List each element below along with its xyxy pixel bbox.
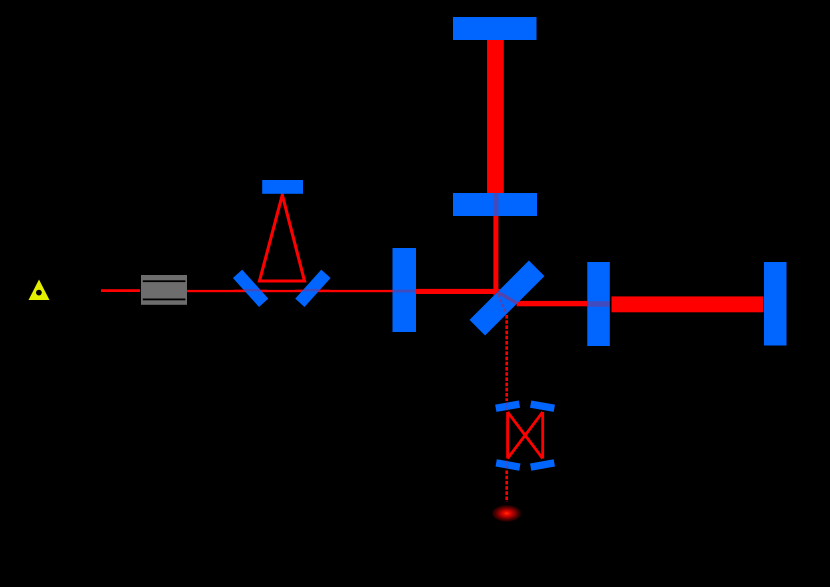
ETM X mirror (764, 262, 787, 346)
beam trace through ITM X (587, 301, 610, 307)
beam trace through mode cleaner mirror M2 (295, 289, 330, 291)
ITM X mirror (587, 262, 610, 346)
wire beam beamsplitter up to ITM Y (clipped at BS face) (493, 216, 498, 296)
ETM Y mirror (453, 17, 537, 40)
beam trace through ITM Y (493, 193, 498, 216)
beam trace through mode cleaner mirror M1 (234, 289, 267, 291)
wire beam PRM to beamsplitter (clipped at BS face) (416, 289, 500, 294)
modulator box (141, 275, 187, 305)
OMC bowtie beam diagonal TR-BL (508, 412, 543, 459)
wire beam beamsplitter to ITM X (517, 301, 588, 306)
beamsplitter (470, 261, 545, 336)
beam trace through power recycling mirror (393, 290, 417, 293)
OMC bowtie beam right vertical (541, 412, 544, 459)
OMC mirror bottom-right (530, 459, 555, 470)
mode cleaner mirror M2 (right diagonal) (295, 270, 330, 307)
mode cleaner mirror M3 (top) (262, 180, 303, 194)
wire thick cavity beam X arm (612, 296, 764, 312)
OMC bowtie beam diagonal TL-BR (508, 412, 543, 459)
OMC mirror bottom-left (496, 459, 521, 470)
mode cleaner ring beam triangle (260, 195, 305, 281)
beam trace inside beamsplitter (497, 292, 517, 304)
wire thick cavity beam Y arm (487, 40, 504, 193)
mode cleaner mirror M1 (left diagonal) (233, 270, 268, 307)
OMC mirror top-right (530, 400, 555, 411)
dashed trace through OMC mirror bottom-left (505, 460, 508, 470)
dashed beam OMC to photodiode (505, 471, 508, 503)
wire beam laser to modulator (101, 289, 140, 292)
ITM Y mirror (453, 193, 537, 216)
dashed dark port beam BS to OMC (505, 315, 508, 401)
OMC bowtie beam left vertical (506, 412, 509, 459)
dark port dashed trace inside beamsplitter (498, 295, 506, 314)
laser source triangle (29, 280, 50, 301)
OMC mirror top-left (495, 400, 520, 411)
power recycling mirror (393, 248, 417, 332)
photodiode glow (492, 505, 522, 522)
wire beam modulator to PRM (under mode cleaner) (187, 290, 393, 292)
dashed trace through OMC mirror top-left (505, 402, 508, 411)
